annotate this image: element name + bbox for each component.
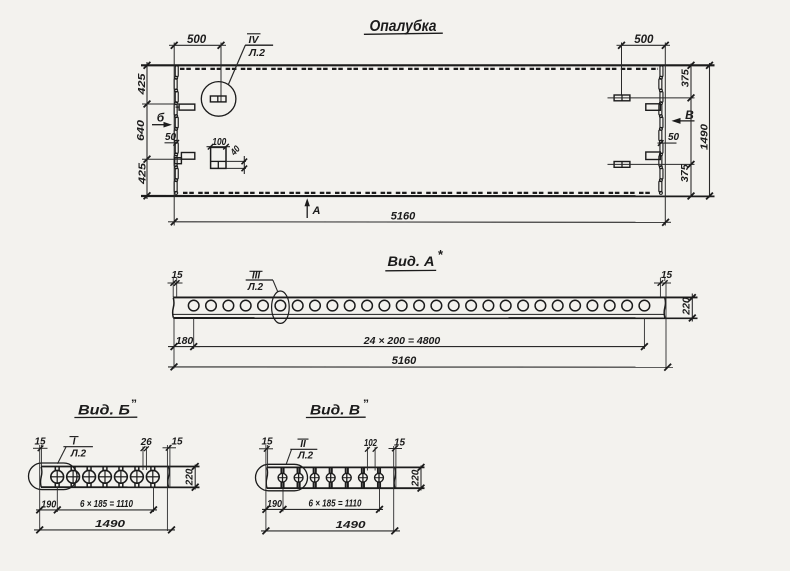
leader line I xyxy=(58,447,67,464)
svg-text:5160: 5160 xyxy=(392,355,417,367)
plan top rib dashes xyxy=(180,68,658,70)
bolt 7 (view Б) xyxy=(150,467,152,472)
svg-text:640: 640 xyxy=(135,120,147,141)
svg-text:50: 50 xyxy=(668,132,680,143)
leader line II xyxy=(286,450,291,465)
plan right serrated edge xyxy=(660,66,663,77)
dim 15 left (view A) xyxy=(172,278,174,298)
detail callout stadium I xyxy=(29,463,78,490)
bolt 5 (view Б) xyxy=(118,467,120,472)
strip Б left end edge xyxy=(41,467,42,487)
dim 190 (В) xyxy=(262,508,283,510)
embed anchor right-bottom (double cell) xyxy=(614,162,630,168)
bolt 1 (view В) xyxy=(280,468,282,488)
svg-text:IV: IV xyxy=(249,34,260,46)
svg-text:375: 375 xyxy=(679,164,691,182)
svg-text:В: В xyxy=(685,108,694,122)
embed plate left-bottom offset part xyxy=(175,158,182,164)
svg-text:1490: 1490 xyxy=(698,124,710,150)
svg-text:1490: 1490 xyxy=(336,519,366,531)
dim 15 right (view A) xyxy=(659,278,661,298)
right chain 375 ticks xyxy=(688,62,695,69)
dim 180 (view A) xyxy=(168,346,200,348)
bolt 1 (view Б) xyxy=(54,467,56,472)
bolt 2 (view Б) xyxy=(70,467,72,472)
ext first hole (view A) xyxy=(193,318,195,349)
right chain 1490 ticks xyxy=(706,62,713,69)
mini-detail dim 40 extensions xyxy=(226,160,246,162)
dim 6x185=1110 (В) xyxy=(283,508,383,510)
embed plate right-top xyxy=(646,104,661,111)
extension line to embed (500 left) xyxy=(220,43,222,102)
svg-text:190: 190 xyxy=(267,498,282,510)
bolt 2 (view В) xyxy=(297,468,299,488)
svg-text:Вид. В: Вид. В xyxy=(310,403,360,418)
svg-text:6 × 185 = 1110: 6 × 185 = 1110 xyxy=(309,498,362,509)
mini-detail dim 100 xyxy=(207,146,231,148)
embed plate right-bottom xyxy=(646,152,661,160)
left dim chain line xyxy=(146,62,148,199)
dim 500 top-left xyxy=(174,44,221,46)
plan left serrated edge xyxy=(175,66,178,77)
svg-text:Л.2: Л.2 xyxy=(247,282,264,293)
strip A bottom edge xyxy=(173,317,697,319)
ext first bolt (Б) xyxy=(56,487,58,512)
anchor rod line right-top xyxy=(608,97,695,99)
right chain 375 line xyxy=(690,64,692,198)
svg-text:15: 15 xyxy=(171,437,183,448)
strip Б top edge xyxy=(41,466,200,468)
dim 500 top-right xyxy=(622,44,666,46)
detail callout circle IV xyxy=(201,82,236,117)
dim 5160 (plan) xyxy=(174,221,665,224)
svg-text:190: 190 xyxy=(41,498,56,510)
svg-text:50: 50 xyxy=(165,132,177,143)
ext last bolt (Б) xyxy=(153,487,155,512)
section arrow А xyxy=(306,202,308,218)
plan top edge xyxy=(141,64,715,66)
ext right end (view A) xyxy=(665,281,667,368)
dim 5160 (view A) xyxy=(168,366,673,368)
ext first bolt (В) xyxy=(282,488,284,511)
dim 220 right (Б) xyxy=(194,465,196,490)
bolt 3 (view Б) xyxy=(86,467,88,472)
strip Б right serrated edge xyxy=(168,467,169,487)
plan bottom edge xyxy=(141,195,715,197)
right chain 1490 line xyxy=(709,63,711,198)
bolt 3 (view В) xyxy=(313,468,315,488)
svg-text:15: 15 xyxy=(34,436,46,447)
svg-text:Вид. А: Вид. А xyxy=(388,253,435,269)
svg-text:500: 500 xyxy=(634,34,654,46)
ext left end (view A) xyxy=(173,318,175,369)
svg-text:Опалубка: Опалубка xyxy=(370,18,437,35)
svg-text:6 × 185 = 1110: 6 × 185 = 1110 xyxy=(80,499,133,510)
bolt 5 (view В) xyxy=(345,468,347,488)
bolt 6 (view В) xyxy=(361,468,363,488)
svg-text:500: 500 xyxy=(187,34,207,46)
strip A left end edge xyxy=(173,298,174,318)
svg-text:1490: 1490 xyxy=(95,518,125,530)
svg-text:”: ” xyxy=(363,397,369,411)
ext last bolt (В) xyxy=(379,488,381,511)
strip В right serrated edge xyxy=(394,468,395,488)
dim 220 right (В) xyxy=(420,466,422,491)
strip A right end edge xyxy=(664,298,665,318)
strip В bottom edge xyxy=(267,487,425,489)
svg-text:5160: 5160 xyxy=(391,211,416,223)
strip Б bottom edge xyxy=(41,486,200,488)
dim 24x200=4800 (view A) xyxy=(194,346,645,348)
dim 1490 (Б) xyxy=(34,529,175,531)
dim 220 right (view A) xyxy=(691,294,693,322)
plan left boundary extension line xyxy=(173,43,175,226)
dim 6x185=1110 (Б) xyxy=(57,509,157,511)
svg-text:”: ” xyxy=(131,397,137,411)
anchor rod line right-bottom xyxy=(608,163,695,165)
svg-text:15: 15 xyxy=(661,270,673,281)
embed plate left-bottom xyxy=(181,153,194,160)
bolt 4 (view Б) xyxy=(102,467,104,472)
hole circles row (view A) xyxy=(188,300,199,311)
plan bottom rib dashes xyxy=(183,192,652,194)
leader line III xyxy=(273,280,278,292)
bolt 6 (view Б) xyxy=(134,467,136,472)
svg-text:24 × 200 = 4800: 24 × 200 = 4800 xyxy=(363,335,441,347)
extension line to embed (500 right) xyxy=(621,43,623,96)
svg-text:375: 375 xyxy=(680,69,692,87)
svg-text:425: 425 xyxy=(136,163,148,185)
dim 190 (Б) xyxy=(36,509,57,511)
plan right boundary extension line xyxy=(664,43,666,226)
strip В top edge xyxy=(267,466,425,468)
svg-text:220: 220 xyxy=(185,468,196,486)
strip A top edge xyxy=(173,296,697,298)
svg-text:А: А xyxy=(312,205,321,217)
strip A inner line xyxy=(174,313,665,315)
svg-text:26: 26 xyxy=(140,437,152,448)
svg-text:Л.2: Л.2 xyxy=(297,450,314,461)
svg-text:Вид. Б: Вид. Б xyxy=(78,403,131,418)
mini-detail plate outline xyxy=(211,147,226,168)
left chain extension y104 xyxy=(142,103,180,105)
detail callout stadium II xyxy=(256,464,308,491)
embed anchor right-top (double cell) xyxy=(614,95,630,101)
svg-text:425: 425 xyxy=(136,73,148,95)
svg-text:220: 220 xyxy=(681,297,693,316)
embed plate left-top xyxy=(179,104,195,110)
strip В left end edge xyxy=(266,468,267,488)
svg-text:II: II xyxy=(300,439,306,450)
leader line IV xyxy=(229,45,246,84)
detail callout ellipse III xyxy=(272,291,290,323)
svg-text:Л.2: Л.2 xyxy=(248,47,265,59)
ext last hole (view A) xyxy=(643,318,645,349)
svg-text:Л.2: Л.2 xyxy=(70,449,87,460)
bolt 4 (view В) xyxy=(329,468,331,488)
svg-text:100: 100 xyxy=(212,137,226,148)
svg-text:220: 220 xyxy=(410,469,421,487)
svg-text:I: I xyxy=(73,437,76,448)
embed plate M1 (in circle IV) xyxy=(210,96,226,102)
dim 1490 (В) xyxy=(261,530,400,532)
svg-text:180: 180 xyxy=(176,335,194,347)
bolt 7 (view В) xyxy=(377,468,379,488)
left chain extension y159 xyxy=(142,158,182,160)
left chain ticks xyxy=(144,62,151,69)
svg-text:15: 15 xyxy=(171,270,183,281)
